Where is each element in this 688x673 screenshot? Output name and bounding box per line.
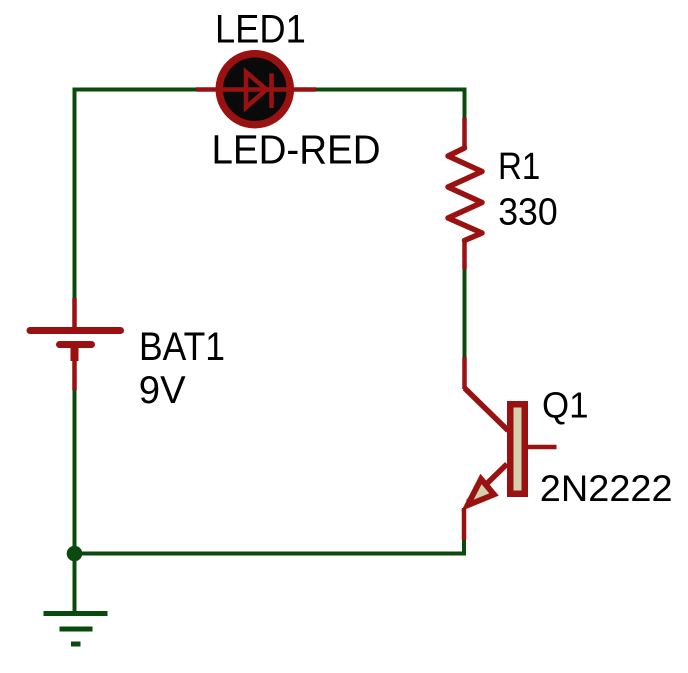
transistor Q1 (NPN, mirrored): [464, 357, 557, 540]
svg-text:330: 330: [498, 190, 558, 233]
Q1 base bar: [510, 404, 525, 494]
R1 zigzag body: [448, 148, 482, 241]
svg-text:9V: 9V: [139, 369, 186, 412]
Q1 emitter pin: [462, 508, 467, 540]
R1 bottom pin: [462, 241, 467, 270]
Q1 emitter diagonal: [468, 464, 507, 502]
Q1 collector diagonal: [465, 388, 509, 431]
LED1 diode triangle: [246, 72, 267, 108]
BAT1 negative pin: [72, 361, 77, 391]
svg-text:Q1: Q1: [542, 385, 589, 426]
BAT1 positive plate: [30, 327, 121, 334]
svg-text:LED-RED: LED-RED: [212, 127, 381, 173]
LED1 body circle: [219, 54, 290, 125]
LED1 internal lead line: [223, 87, 287, 92]
wire: R1 bottom to Q1 collector: [463, 270, 467, 358]
R1 top pin: [462, 118, 467, 148]
LED1 cathode bar: [269, 74, 274, 109]
battery BAT1: [30, 298, 121, 391]
BAT1 negative stem: [71, 345, 79, 362]
svg-text:BAT1: BAT1: [139, 324, 225, 369]
LED1 anode and cathode pins: [196, 87, 316, 92]
BAT1 negative plate: [60, 341, 92, 348]
BAT1 positive pin: [72, 298, 77, 327]
resistor R1: [448, 118, 482, 270]
svg-text:LED1: LED1: [215, 6, 306, 51]
wire: LED1 cathode to R1 top (top-right corner): [316, 90, 465, 119]
LED D-type LED1: [196, 54, 316, 125]
Q1 base pin: [528, 445, 557, 450]
Q1 collector pin: [462, 357, 467, 389]
svg-text:R1: R1: [498, 146, 540, 188]
svg-text:2N2222: 2N2222: [540, 467, 673, 509]
wire: LED1 anode to BAT1 positive (top-left corner): [75, 90, 197, 299]
wire: Q1 emitter to ground net (bottom run): [75, 540, 465, 554]
Q1 emitter arrow: [468, 479, 495, 505]
ground: [44, 614, 108, 645]
wire: BAT1 negative down to ground: [73, 390, 77, 612]
junction: ground net node dot: [67, 546, 83, 562]
